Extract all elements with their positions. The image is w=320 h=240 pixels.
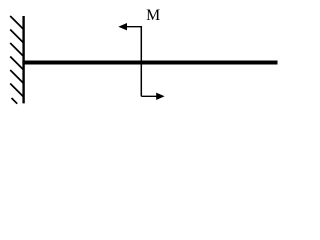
wall hatch 3 bbox=[10, 43, 24, 57]
wall hatch 5 bbox=[10, 70, 24, 84]
wall hatch 4 bbox=[10, 57, 24, 71]
bottom arrowhead (points right) bbox=[156, 93, 164, 100]
top couple arm (leftward) bbox=[126, 26, 143, 28]
fixed support wall line bbox=[22, 16, 24, 103]
wall hatch 6 bbox=[10, 84, 24, 98]
svg-text:M: M bbox=[146, 7, 160, 24]
wall hatch 1 bbox=[10, 16, 24, 30]
wall hatch 7 (partial, clipped at bottom) bbox=[12, 98, 18, 104]
wall hatch 2 bbox=[10, 30, 24, 44]
beam bbox=[22, 61, 277, 65]
bottom couple arm (rightward) bbox=[141, 95, 157, 97]
top arrowhead (points left) bbox=[118, 23, 127, 30]
moment couple vertical line bbox=[140, 26, 142, 96]
